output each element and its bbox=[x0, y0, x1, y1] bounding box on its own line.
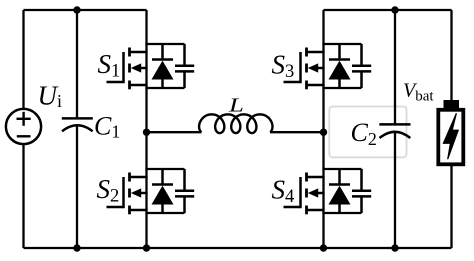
wires of S1 cell box bbox=[145, 44, 184, 88]
wire: left rail lower bbox=[22, 144, 24, 249]
node: right bridge bottom bbox=[320, 244, 327, 251]
svg-text:L: L bbox=[228, 94, 244, 116]
wires of S4 cell box bbox=[322, 169, 361, 213]
capacitor C1 (polarized) bbox=[62, 118, 93, 131]
node: C2 top junction bbox=[391, 6, 398, 13]
battery Vbat bbox=[438, 100, 463, 164]
inductor L bbox=[147, 114, 324, 133]
parallel capacitor of S3 bbox=[352, 44, 371, 88]
body diode of S1 bbox=[152, 44, 174, 88]
svg-text:C1: C1 bbox=[94, 112, 120, 142]
wires of S2 cell box bbox=[145, 169, 184, 213]
highlight box around C2 bbox=[329, 107, 406, 158]
parallel capacitor of S4 bbox=[352, 169, 371, 213]
svg-text:C2: C2 bbox=[351, 118, 377, 149]
parallel capacitor of S2 bbox=[175, 169, 194, 213]
svg-text:S2: S2 bbox=[97, 174, 120, 207]
node: right bridge midpoint bbox=[320, 129, 327, 136]
wire: right rail lower (battery bottom lead) bbox=[450, 164, 452, 248]
wire: left rail upper (source Ui top lead) bbox=[22, 10, 24, 110]
node: C1 bottom junction bbox=[73, 244, 80, 251]
wire: top-right rail bbox=[324, 9, 452, 11]
node: left bridge bottom bbox=[143, 244, 150, 251]
parallel capacitor of S1 bbox=[175, 44, 194, 88]
wire: C1 top lead bbox=[76, 10, 78, 119]
transistor S2 (MOSFET) bbox=[107, 173, 148, 215]
transistor S4 (MOSFET) bbox=[284, 173, 325, 215]
capacitor C2 (polarized) bbox=[379, 124, 410, 138]
svg-text:Ui: Ui bbox=[38, 81, 63, 112]
wire: bottom rail bbox=[24, 247, 452, 249]
transistor S3 (MOSFET) bbox=[284, 48, 325, 90]
svg-text:S4: S4 bbox=[272, 175, 295, 208]
wire: C1 bottom lead bbox=[76, 126, 78, 248]
body diode of S2 bbox=[152, 169, 174, 213]
body diode of S4 bbox=[329, 169, 351, 213]
wire: right bridge column (drain/source path S3,S4) bbox=[322, 10, 324, 248]
wire: top-left rail bbox=[24, 9, 147, 11]
wire: left bridge column (drain/source path S1,S2) bbox=[145, 10, 147, 248]
wire: C2 top lead bbox=[394, 10, 396, 125]
wire: right rail upper (battery top lead) bbox=[450, 10, 452, 100]
svg-text:S3: S3 bbox=[272, 50, 295, 83]
node: C1 top junction bbox=[73, 6, 80, 13]
wire: C2 bottom lead bbox=[394, 132, 396, 248]
svg-text:S1: S1 bbox=[98, 49, 121, 82]
node: C2 bottom junction bbox=[391, 244, 398, 251]
wires of S3 cell box bbox=[322, 44, 361, 88]
node: left bridge midpoint bbox=[143, 129, 150, 136]
voltage source Ui bbox=[6, 109, 41, 144]
transistor S1 (MOSFET) bbox=[107, 48, 148, 90]
svg-text:Vbat: Vbat bbox=[403, 80, 434, 105]
body diode of S3 bbox=[329, 44, 351, 88]
